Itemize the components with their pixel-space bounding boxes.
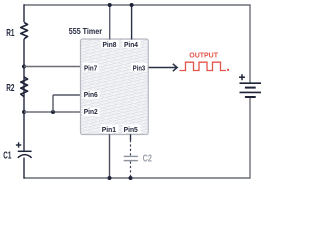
svg-text:C2: C2 [143,154,153,165]
node R2/C1 junction [22,110,26,114]
pin label Pin7 [83,63,99,72]
svg-text:R2: R2 [6,83,15,94]
wire pin3 arrow [149,64,178,71]
wire right rail lower [249,97,251,179]
pin label Pin5 [123,125,141,135]
wire pin7 [24,66,81,68]
svg-text:Pin8: Pin8 [103,40,117,49]
wire pin6 horizontal [53,94,81,96]
svg-text:Pin4: Pin4 [124,40,138,49]
capacitor C1 [3,142,31,161]
battery B1 [239,74,261,97]
svg-text:Pin2: Pin2 [84,107,98,116]
svg-text:Pin1: Pin1 [102,125,116,134]
node pin4 top junction [130,3,134,7]
pin label Pin4 [123,40,141,49]
node pin8 top junction [108,3,112,7]
node pin1 bottom junction [108,176,112,180]
node C2 bottom junction [129,176,133,180]
svg-text:555 Timer: 555 Timer [69,26,103,36]
wire pin8 lead [109,5,111,40]
svg-text:Pin7: Pin7 [84,63,97,72]
svg-text:Pin6: Pin6 [84,90,98,99]
wire pin4 lead [131,5,133,40]
pin label Pin8 [101,40,119,49]
wire right rail upper [249,4,251,83]
wire pin6 vertical [52,95,54,112]
node R1/R2 junction [22,65,26,69]
op-amp box 555 timer U1 [69,26,149,135]
wire left rail [23,4,25,178]
waveform period dot [227,69,229,71]
svg-text:C1: C1 [3,150,11,161]
svg-text:Pin5: Pin5 [124,125,138,134]
resistor R2 [6,77,27,97]
pin label Pin2 [83,107,100,116]
square wave [180,62,227,70]
svg-text:R1: R1 [6,28,14,39]
pin label Pin3 [131,63,147,72]
wire bottom rail [24,177,250,179]
resistor R1 [6,22,27,39]
node pin6 branch junction [51,110,55,114]
pin label Pin1 [101,125,119,135]
wire pin2 [24,111,81,113]
svg-text:OUTPUT: OUTPUT [189,52,218,59]
capacitor C2 [124,134,153,178]
wire pin1 lead [109,134,111,178]
pin label Pin6 [83,90,100,99]
wire top rail [24,4,250,6]
svg-text:Pin3: Pin3 [133,63,145,72]
